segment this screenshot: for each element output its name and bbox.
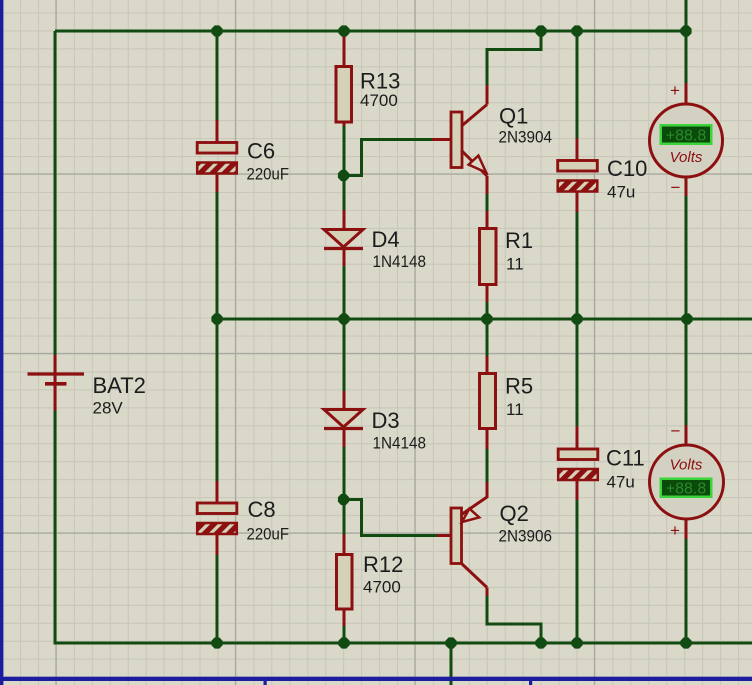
wire C10 bottom / C11 top [576,211,579,427]
wire R13 top stub [343,31,346,38]
svg-text:2N3906: 2N3906 [499,527,553,546]
pin R13 2 [343,121,346,126]
transistor Q1 [451,105,487,177]
svg-text:R1: R1 [505,228,533,253]
svg-text:Q1: Q1 [499,104,528,129]
pin C11 + [576,478,579,501]
sheet border bottom [0,677,752,681]
pin C8 - [216,534,219,555]
svg-text:Q2: Q2 [500,501,529,526]
wire left rail upper (battery +) [54,31,57,356]
resistor R5 [480,374,496,429]
svg-text:R12: R12 [363,552,403,577]
svg-text:R13: R13 [360,69,400,94]
junction top rail / voltmeter1 [680,25,691,36]
resistor R1 [480,229,497,285]
sheet border tick 2 [529,681,532,685]
pin voltmeter1 - [685,175,688,196]
svg-text:−: − [671,422,681,441]
junction top rail / C10 [571,25,582,36]
wire Q1 emitter to R1 [486,193,489,212]
pin D3 anode [343,391,346,411]
wire R5 bottom to Q2 emitter [486,448,489,483]
svg-text:28V: 28V [93,399,124,418]
pin R12 1 [343,535,346,556]
svg-text:47u: 47u [607,183,635,202]
svg-text:C11: C11 [606,446,645,471]
svg-text:+: + [670,521,680,540]
svg-text:D3: D3 [372,408,400,433]
junction top rail / C6 [211,25,222,36]
diode D4 [324,230,363,249]
svg-text:C6: C6 [247,139,275,164]
junction mid rail / C6-C8 [211,313,222,324]
sheet border tick 1 [264,681,267,685]
wire left rail lower [54,410,57,645]
pin R1 2 [486,284,489,302]
junction top rail / R13 [338,25,349,36]
wire Q2 collector to bottom rail [487,595,541,643]
wire Q1 base [344,140,434,176]
junction bottom rail / voltmeter2 [680,637,691,648]
wire C10 top [576,31,579,139]
pin C11 - [576,426,579,450]
svg-text:BAT2: BAT2 [93,373,146,398]
pin voltmeter1 + [685,83,688,106]
wire R1 bottom / R5 top [486,301,489,356]
svg-text:Volts: Volts [670,457,703,474]
wire C6 bottom / C8 top [216,191,219,482]
capacitor C10 [558,161,598,192]
pin D4 cathode [343,248,346,267]
wire middle rail (output node) [217,318,752,321]
pin C6 + [216,120,219,143]
pin Q1 emitter [486,176,489,194]
pin D3 cathode [343,428,346,448]
junction bottom rail / stub [445,637,456,648]
resistor R12 [337,555,353,610]
pin D4 anode [343,210,346,231]
wire R12 bottom [343,625,346,643]
wire C8 bottom [216,554,219,643]
svg-text:+88.8: +88.8 [666,128,707,145]
svg-text:1N4148: 1N4148 [373,252,427,271]
pin C6 - [216,173,219,193]
pin R5 1 [486,356,489,374]
svg-text:4700: 4700 [363,578,401,597]
junction R13-D4 / Q1 base [338,170,349,181]
pin voltmeter2 - [685,425,688,447]
pin Q1 base [432,138,452,141]
svg-text:4700: 4700 [360,91,398,110]
capacitor C6 [197,143,237,174]
svg-text:220uF: 220uF [247,525,290,544]
pin Q2 emitter [486,482,489,498]
voltmeter VM2 [650,445,724,519]
svg-text:2N3904: 2N3904 [499,128,553,147]
capacitor C8 [197,503,237,534]
junction mid rail / C10-C11 [571,313,582,324]
svg-text:D4: D4 [372,227,400,252]
svg-text:R5: R5 [505,374,533,399]
wire C6 top [216,31,219,121]
svg-text:+88.8: +88.8 [666,481,707,498]
wire D4 cathode / D3 anode [343,265,346,392]
pin voltmeter2 + [685,517,688,539]
junction bottom rail / Q2 collector [535,637,546,648]
wire D3 cathode / R12 top [343,446,346,535]
transistor Q2 [451,497,487,588]
svg-text:1N4148: 1N4148 [373,434,427,453]
wire voltmeter1 + from top edge [685,0,688,84]
wire bottom stub to sheet edge [450,643,453,685]
resistor R13 [336,67,352,123]
wire Q1 collector to top rail [487,31,541,85]
pin BAT2 leads [54,355,57,411]
junction bottom rail / C8 [211,637,222,648]
junction mid rail / R1-R5 [481,313,492,324]
junction D3-R12 / Q2 base [338,494,349,505]
svg-text:11: 11 [506,400,524,419]
pin R1 1 [486,211,489,229]
svg-text:47u: 47u [607,473,635,492]
wire Q2 base [344,500,438,536]
svg-text:Volts: Volts [670,149,703,166]
svg-text:C8: C8 [248,497,276,522]
svg-text:220uF: 220uF [247,165,290,184]
svg-text:+: + [670,81,680,100]
junction mid rail / D4-D3 [338,313,349,324]
wire top rail (V+) [55,30,686,33]
junction top rail / Q1 collector [535,25,546,36]
junction mid rail / voltmeters [681,313,692,324]
junction bottom rail / C11 [571,637,582,648]
wire bottom rail (V-) [55,642,752,645]
wire C11 bottom [576,499,579,643]
svg-text:C10: C10 [607,156,647,181]
battery BAT2 [28,374,85,384]
svg-text:−: − [671,178,681,197]
pin R12 2 [343,608,346,626]
wire R13 bottom / D4 anode [343,125,346,211]
pin C8 + [216,481,219,504]
pin R13 1 [343,32,346,67]
pin Q2 collector [486,588,489,597]
pin Q2 base [437,534,452,537]
wire voltmeter1 - / voltmeter2 - [685,195,688,427]
sheet border left [0,0,3,685]
svg-text:11: 11 [506,255,524,274]
wire voltmeter2 + to bottom rail [685,538,688,643]
voltmeter VM1 [650,104,723,177]
junction bottom rail / R12 [338,637,349,648]
capacitor C11 [558,449,598,480]
pin Q1 collector [486,85,489,105]
pin R5 2 [486,428,489,449]
diode D3 [324,410,363,429]
pin C10 + [576,138,579,161]
pin C10 - [576,191,579,213]
